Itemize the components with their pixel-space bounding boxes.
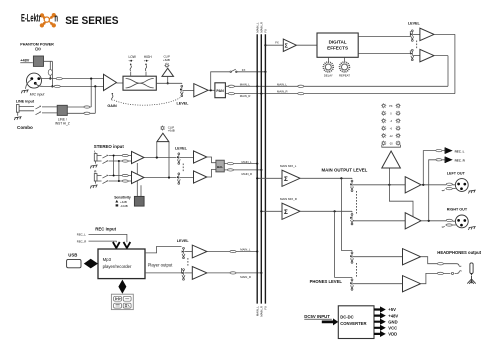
FX send switch [230,69,237,72]
LEVEL pot stereo L [177,153,180,164]
resistor FX return L [298,85,304,87]
resistor mp3 R [230,272,236,274]
svg-text:DC-DC: DC-DC [340,314,354,319]
svg-text:DELAY: DELAY [324,73,333,77]
main level pot L [350,180,353,191]
wire pots to amps [180,158,194,178]
svg-text:HEADPHONES output: HEADPHONES output [437,250,481,255]
stereo L jack [94,154,97,161]
svg-text:LINE input: LINE input [16,100,35,104]
svg-text:REC_R: REC_R [455,159,466,163]
HIGH pot [145,64,147,71]
phones level pot R [350,279,353,290]
RCA plug REC_R [445,157,453,163]
junction mp3 R bus [260,272,262,274]
op-amp output R [405,213,421,229]
wire FX bus to sum amp [265,44,283,46]
stereo R switch contacts [103,175,109,179]
svg-text:REC_R: REC_R [77,239,86,243]
wire REC_L [89,234,127,242]
phantom power switch (gray box) [33,56,43,66]
svg-text:-10dB: -10dB [120,204,128,208]
wire mix L to pot [300,177,352,180]
player out R to amp [184,272,192,274]
op-amp mp3 L [192,245,207,258]
resistor L+ [122,154,128,156]
clip detector amp stereo [157,133,169,141]
wire phones pot L to amp [353,256,403,258]
svg-text:REC_L: REC_L [77,233,86,237]
wire out R [421,220,456,222]
wire mp3 R to bus [207,272,261,274]
clip tap junctions [156,156,158,158]
svg-text:Σ: Σ [284,209,288,216]
resistor on mic cold [54,85,60,87]
svg-text:CONVERTER: CONVERTER [340,321,366,326]
gang link fx level [416,41,418,49]
junction pan R bus [260,93,262,95]
GAIN pot [112,93,114,100]
resistor rec L [436,149,442,151]
svg-text:INST Hi_Z: INST Hi_Z [55,122,70,126]
clip LED stereo [160,126,165,131]
wire mic cold [35,83,103,86]
+5V output arrow [374,306,386,312]
meter driver amp [382,151,401,168]
wire phones pot R to amp [353,283,403,285]
arrow REC_L into recorder [124,242,131,248]
svg-text:DC5V INPUT: DC5V INPUT [304,314,330,319]
VDD output arrow [374,331,386,337]
resistor mp3 L [230,250,236,252]
left out cold wire [442,189,456,191]
transport data diamond [118,280,126,294]
svg-text:MAIN_R: MAIN_R [240,275,251,279]
svg-text:+5V: +5V [388,307,396,312]
ground (stereo L) [90,165,97,169]
main level pot R [350,214,353,225]
svg-text:L: L [94,150,96,154]
bus MAIN_L [256,34,258,303]
resistor right cold [446,224,452,226]
op-amp fx return L [420,28,434,40]
wire R amp out [144,177,177,179]
resistor FX return R [298,92,304,94]
svg-text:MAIN_L: MAIN_L [240,248,251,252]
wire REC_R [89,241,117,242]
phones R tap wire [335,211,352,278]
svg-text:PAN: PAN [216,89,224,93]
stereo R jack [94,174,97,181]
op-amp stereo R [132,171,145,183]
meter sum leg [389,168,413,221]
clip detector amp ch1 [162,68,174,76]
phones level pot L [350,252,353,263]
resistor R- [122,180,128,182]
PAN out R wire to bus [225,34,455,93]
phones ring circle [451,272,453,274]
USB connector box [67,259,81,267]
wire pot R to out amp [353,220,405,222]
op-amp fx return R [420,49,434,61]
fx out L wire [358,31,410,37]
resistor line upper [84,106,90,108]
wire pot to amp [183,89,194,91]
junction line/mic cold [94,85,96,87]
svg-text:FX: FX [275,41,279,45]
resistor bal L [227,162,233,164]
svg-text:MAIN_L: MAIN_L [277,82,288,86]
player level pot R [182,269,185,280]
line pad switch (gray box) LINE/INST [57,105,67,115]
wire pot L to out amp [353,184,405,186]
junction on mic cold [51,85,53,87]
phones out R wire [421,273,457,283]
GND output arrow [374,319,386,325]
wire fx pot L to amp [413,33,420,35]
resistor L- [122,160,128,162]
ground (stereo R) [90,185,97,189]
svg-text:RIGHT OUT: RIGHT OUT [447,208,468,212]
op-amp mic preamp [104,74,117,90]
wire L amp out [144,157,177,159]
ground (headphone jack) [467,276,475,284]
svg-text:PK: PK [389,105,393,108]
LEVEL pot ch1 [180,85,183,96]
clip detector taps [157,142,169,178]
wire from phantom switch [44,61,53,86]
wires R rows [109,176,132,182]
ground (left out) [468,190,475,194]
meter bracket [382,145,401,148]
svg-text:MAIN_L: MAIN_L [242,160,253,164]
svg-text:+48V: +48V [20,59,29,63]
svg-text:GND: GND [388,319,397,324]
svg-text:+48V: +48V [388,313,398,318]
sensitivity feed wires [137,163,141,196]
resistor left out [446,183,452,185]
svg-text:REPEAT: REPEAT [339,73,350,77]
wire EQ to LEVEL pot [156,82,182,85]
BAL box [216,160,224,172]
svg-text:FX: FX [264,29,268,33]
svg-text:PHANTOM POWER: PHANTOM POWER [20,42,54,46]
ground (line input) [14,117,21,121]
svg-text:LEVEL: LEVEL [408,22,421,26]
fx level pot R [411,49,414,60]
BAL out R wire [224,169,261,171]
svg-text:Σ: Σ [284,176,288,183]
svg-text:SE SERIES: SE SERIES [65,15,119,27]
DC input arrow [322,318,339,325]
op-amp stereo post L [194,151,207,163]
resistor on mic hot [56,77,62,79]
sensitivity legend [115,200,118,203]
PAN box [215,83,226,98]
svg-text:+◆-: +◆- [128,58,133,62]
logo atom graphic [40,13,56,28]
wire bus to main mix R [261,210,282,212]
svg-text:E-Lektr: E-Lektr [21,13,41,25]
EQ box [123,76,156,90]
gain-level dotted link [114,98,180,106]
junction FX to sum [264,44,266,46]
junction phones R tap [334,210,336,212]
gang link stereo level [182,164,184,173]
EQ curves [126,79,154,88]
REC_R feed wire [429,160,445,221]
svg-text:MAIN_R: MAIN_R [277,90,288,94]
VCC output arrow [374,325,386,331]
LED meter right column [396,103,401,108]
svg-text:Player output: Player output [148,263,174,268]
svg-text:+◆-: +◆- [144,58,149,62]
junction bal R bus [260,169,262,171]
svg-text:BAL: BAL [217,165,223,169]
svg-text:MAIN MIX_R: MAIN MIX_R [280,197,297,201]
op-amp phones R [403,276,421,292]
line input jack [16,105,19,113]
XLR mic input connector [27,73,42,88]
junction on mic hot [49,77,51,79]
LOW pot [130,64,132,71]
player level pot L [182,247,185,258]
headphone jack body [470,263,473,274]
RCA plug REC_L [445,147,453,153]
svg-text:VDD: VDD [388,332,397,337]
resistor right out [446,219,452,221]
clip LED ch1 [164,63,169,68]
wire bus to main mix L [257,177,282,179]
junction mp3 L bus [256,250,258,252]
REC_L feed wire [423,151,444,185]
svg-text:Combo: Combo [17,125,33,130]
line input switch contacts [24,107,34,111]
svg-text:LEVEL: LEVEL [177,101,190,105]
phantom feed capacitor [48,70,52,76]
svg-text:+6dB: +6dB [163,58,170,62]
Mp3 player/recorder box [98,249,145,279]
phones tip contact [457,264,462,267]
transport buttons box [111,294,133,309]
wire mic hot [40,78,104,80]
wire amp to PAN [208,89,215,91]
ground (right out) [468,226,475,230]
fx return L feedback wire [434,34,455,55]
resistor left cold [446,187,452,189]
right out cold wire [442,225,456,227]
bus FX [264,34,266,303]
op-amp stereo L [132,151,145,163]
op-amp stereo post R [194,171,207,183]
player out R wire [145,268,182,273]
+48V output arrow [374,313,386,319]
DELAY knob [328,57,330,61]
normalling cross wires [114,156,119,182]
svg-text:-12: -12 [389,135,393,138]
gang link main level [355,191,357,214]
op-amp mp3 R [192,267,207,280]
junction FX bus [264,71,266,73]
svg-text:VCC: VCC [388,326,397,331]
wire XLR pin1 to ground [25,80,31,89]
svg-text:MAIN OUTPUT LEVEL: MAIN OUTPUT LEVEL [322,167,368,172]
REPEAT knob [344,57,346,61]
phones ring contact [457,271,462,274]
resistor R+ [122,174,128,176]
DC-DC converter box [338,306,374,339]
arrow REC_R into recorder [113,242,120,248]
resistor line lower [84,112,90,114]
sensitivity switch (gray box) [134,196,144,206]
resistor pan R [228,92,234,94]
wire mix R to pot [300,211,352,212]
resistor pan L [228,85,234,87]
svg-text:GAIN: GAIN [107,104,117,108]
resistor bal R [227,169,233,171]
svg-text:STEREO input: STEREO input [94,144,125,149]
XLR RIGHT OUT [455,215,468,228]
op-amp MAIN MIX_R [282,203,300,219]
svg-text:player/recorder: player/recorder [103,264,132,269]
LEVEL pot stereo R [177,173,180,184]
junction bal L bus [256,163,258,165]
junction phones L tap [340,177,342,179]
svg-text:MAIN_R: MAIN_R [242,172,253,176]
op-amp MAIN MIX_L [282,170,300,186]
resistor rec R [436,159,442,161]
fx out R wire [358,50,410,53]
XLR LEFT OUT [455,179,468,192]
svg-text:DIGITAL: DIGITAL [329,40,347,45]
player out L to amp [184,251,192,253]
svg-text:MAIN_R: MAIN_R [240,94,251,98]
svg-text:LEVEL: LEVEL [175,146,188,150]
op-amp ch1 line amp [194,84,208,97]
wire fx pot R to amp [413,55,420,57]
svg-text:-20: -20 [389,142,393,145]
phantom indicator icon [35,48,40,51]
svg-text:EFFECTS: EFFECTS [327,45,348,50]
DIGITAL EFFECTS box [317,33,358,57]
clip stub [167,76,169,83]
stereo L switch contacts [103,155,109,159]
svg-text:MAIN MIX_L: MAIN MIX_L [280,164,297,168]
op-amp FX sum [283,39,296,51]
FX send wire ch1 [211,72,266,91]
svg-text:USB: USB [68,253,77,258]
BAL out L wire [224,163,257,165]
gang link mp3 level [187,258,189,267]
phones out L wire [421,257,457,264]
junction line/mic hot [90,78,92,80]
svg-text:Mp3: Mp3 [103,257,112,262]
op-amp phones L [403,249,421,265]
svg-text:n: n [54,13,58,25]
junction meter L [388,184,390,186]
svg-text:FX: FX [242,68,246,72]
fx level pot L [411,30,414,41]
player out L wire [145,246,182,253]
USB data diamond [84,259,98,269]
svg-text:LEFT OUT: LEFT OUT [447,172,466,176]
svg-text:MIC input: MIC input [30,92,46,96]
wire preamp to EQ [117,82,124,84]
junction pan L bus [256,85,258,87]
wires from pad switch [67,79,95,114]
wire sum to effects [296,44,317,46]
PAN out L wire to bus [225,56,448,87]
svg-text:MAIN_L: MAIN_L [240,82,251,86]
svg-text:LEVEL: LEVEL [177,239,190,243]
wires to BAL [207,157,216,177]
svg-text:+6dB: +6dB [168,129,175,133]
ground (mic) [21,90,28,94]
wire out L [421,184,456,186]
op-amp output L [405,177,421,193]
svg-text:PHONES LEVEL: PHONES LEVEL [310,279,343,284]
gang link phones level [355,263,357,278]
svg-text:FX: FX [264,306,268,310]
wires L rows [109,156,132,162]
svg-text:REC input: REC input [95,227,116,232]
resistor phones R [437,272,443,274]
wire mp3 L to bus [207,251,257,253]
svg-text:REC_L: REC_L [455,149,465,153]
phones L tap wire [341,178,352,251]
bus MAIN_R [260,34,262,303]
LED meter left column [381,103,386,108]
resistor phones L [437,263,443,265]
svg-text:Sensitivity: Sensitivity [114,196,131,200]
